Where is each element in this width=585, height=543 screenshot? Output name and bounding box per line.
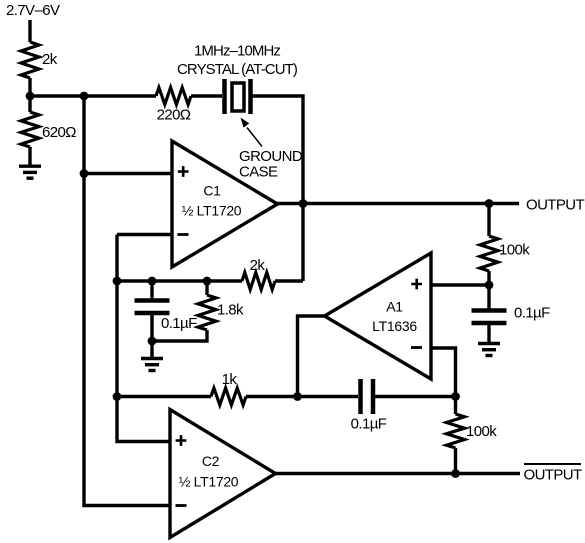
svg-text:LT1636: LT1636 xyxy=(372,318,417,334)
svg-text:C1: C1 xyxy=(203,183,221,199)
wire C2 output line xyxy=(274,472,520,475)
wire C1 output line xyxy=(276,202,519,205)
comparator C2 (1/2 LT1720) xyxy=(170,410,276,538)
node A1 + junction dot xyxy=(485,281,494,290)
label OUTPUT xyxy=(526,197,585,214)
svg-text:½ LT1720: ½ LT1720 xyxy=(179,474,239,490)
resistor R 620ohm (supply divider bottom) xyxy=(21,96,76,165)
wire top rail horizontal xyxy=(30,94,156,97)
node A1 output bus junction dot xyxy=(293,392,302,401)
op-amp A1 (LT1636) xyxy=(325,253,432,379)
svg-text:CASE: CASE xyxy=(239,164,278,181)
node output 100k tap junction dot xyxy=(485,199,494,208)
resistor R 2k (supply divider top) xyxy=(21,42,58,78)
svg-text:GROUND: GROUND xyxy=(239,148,303,165)
label OUTPUT-bar xyxy=(524,464,583,484)
node cap-1.8k bottom junction dot xyxy=(148,337,157,346)
wire bottom bus right segment xyxy=(375,395,456,398)
resistor R 220ohm xyxy=(156,88,191,124)
ground G3 xyxy=(478,344,500,356)
resistor R 1.8k xyxy=(152,281,244,341)
wire bottom bus middle segment xyxy=(246,395,358,398)
node bus-281 left junction dot xyxy=(113,277,122,286)
svg-text:100k: 100k xyxy=(499,242,530,259)
capacitor C 0.1uF (right) xyxy=(472,285,551,343)
wire C1 + input from left rail xyxy=(84,172,172,175)
svg-text:0.1µF: 0.1µF xyxy=(351,416,387,433)
node C1 + tap junction dot xyxy=(80,169,89,178)
svg-text:100k: 100k xyxy=(466,423,497,440)
wire C1 - input xyxy=(117,233,172,236)
resistor R 100k (bottom) xyxy=(447,397,498,474)
node C2 output junction dot xyxy=(451,469,460,478)
node V1 junction dot xyxy=(26,92,35,101)
node C1 output junction dot xyxy=(299,199,308,208)
capacitor C 0.1uF (left) xyxy=(135,281,198,341)
svg-text:A1: A1 xyxy=(386,299,403,315)
svg-text:OUTPUT: OUTPUT xyxy=(524,467,583,484)
ground G2 xyxy=(141,341,163,371)
resistor R 2k (feedback) xyxy=(242,257,275,290)
svg-text:2.7V–6V: 2.7V–6V xyxy=(6,2,60,19)
svg-text:OUTPUT: OUTPUT xyxy=(526,197,585,214)
wire bottom bus left segment xyxy=(117,395,211,398)
wire feedback bus y281 xyxy=(117,279,242,282)
svg-text:0.1µF: 0.1µF xyxy=(514,305,550,322)
svg-text:2k: 2k xyxy=(42,51,58,68)
resistor R 1k xyxy=(211,371,246,405)
svg-text:0.1µF: 0.1µF xyxy=(161,315,197,332)
svg-text:220Ω: 220Ω xyxy=(157,107,191,124)
svg-text:C2: C2 xyxy=(202,453,220,469)
svg-text:2k: 2k xyxy=(250,257,266,274)
crystal Y1 (AT-cut) xyxy=(177,43,298,115)
wire A1 - input xyxy=(431,348,456,397)
capacitor C 0.1uF (feedback, horizontal) xyxy=(351,379,387,433)
wire A1 output to bottom bus xyxy=(298,316,325,397)
ground G1 xyxy=(19,166,41,178)
comparator C1 (1/2 LT1720) xyxy=(172,141,278,267)
wire 2k to feedback vertical xyxy=(275,279,303,282)
label 2.7V-6V supply xyxy=(6,2,60,19)
node top-left of C1 feed junction dot xyxy=(80,92,89,101)
svg-text:620Ω: 620Ω xyxy=(42,124,76,141)
wire 2k to node V1 xyxy=(28,78,31,96)
wire left rail vertical to C2 - input xyxy=(84,96,170,506)
wire crystal right to vertical feedback xyxy=(251,96,304,281)
wire A1 + input xyxy=(431,283,489,286)
svg-text:1k: 1k xyxy=(222,371,238,388)
svg-text:1.8k: 1.8k xyxy=(217,302,244,319)
wire mid rail vertical to C2 + input xyxy=(117,235,170,442)
node bottom bus left junction dot xyxy=(113,392,122,401)
svg-text:CRYSTAL (AT-CUT): CRYSTAL (AT-CUT) xyxy=(177,61,298,78)
node bus-281 1.8k junction dot xyxy=(203,277,212,286)
label GROUND CASE with arrow xyxy=(239,118,303,181)
svg-text:1MHz–10MHz: 1MHz–10MHz xyxy=(194,43,280,60)
resistor R 100k (top) xyxy=(480,204,530,286)
node bus-281 cap junction dot xyxy=(148,277,157,286)
node A1 - bus junction dot xyxy=(451,392,460,401)
wire 220ohm to crystal xyxy=(191,94,222,97)
wire supply rail top xyxy=(28,20,31,42)
svg-text:½ LT1720: ½ LT1720 xyxy=(182,203,242,219)
